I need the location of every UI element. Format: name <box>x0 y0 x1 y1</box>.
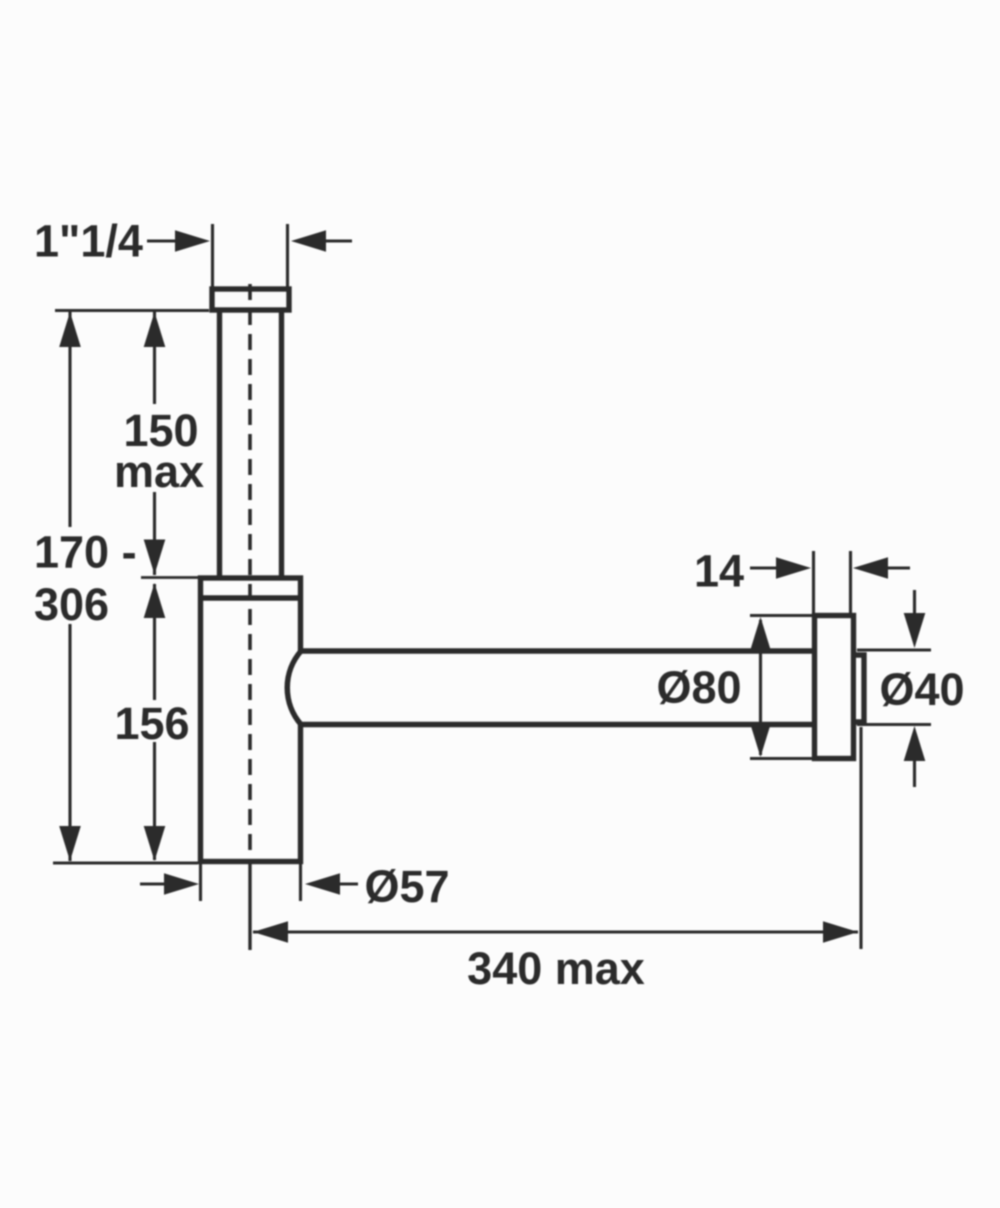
svg-text:14: 14 <box>694 546 744 597</box>
svg-text:306: 306 <box>34 579 109 630</box>
svg-text:1"1/4: 1"1/4 <box>34 216 143 267</box>
svg-text:max: max <box>114 446 204 497</box>
svg-text:156: 156 <box>114 698 189 749</box>
svg-text:Ø40: Ø40 <box>879 664 964 715</box>
svg-text:340 max: 340 max <box>467 943 645 994</box>
svg-text:170 -: 170 - <box>34 527 137 578</box>
svg-text:Ø57: Ø57 <box>364 861 449 912</box>
svg-text:Ø80: Ø80 <box>656 662 741 713</box>
